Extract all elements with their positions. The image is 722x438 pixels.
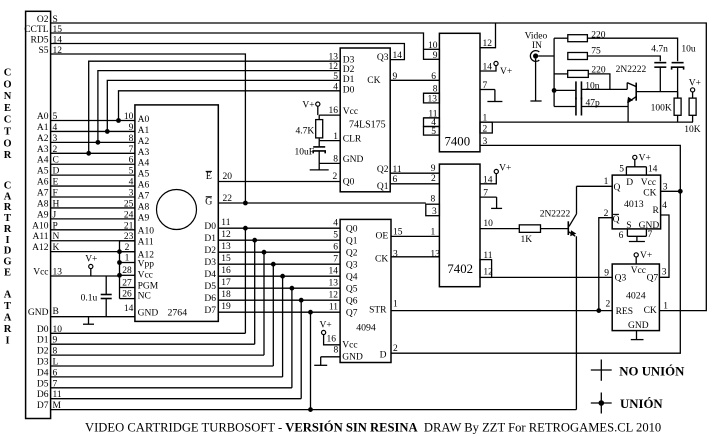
7400 pin 13 tie box <box>424 93 440 103</box>
junction clock at 4013 CK <box>678 189 683 194</box>
IC 4094 <box>340 219 391 362</box>
svg-text:Q1: Q1 <box>346 236 358 246</box>
svg-text:2: 2 <box>393 344 398 354</box>
wire A10 <box>51 229 135 231</box>
svg-text:A5: A5 <box>37 167 49 177</box>
svg-text:GND: GND <box>343 155 364 165</box>
junction on A2 <box>96 140 101 145</box>
svg-text:CK: CK <box>375 254 388 264</box>
svg-text:6: 6 <box>393 175 398 185</box>
svg-text:26: 26 <box>122 290 132 300</box>
svg-text:CLR: CLR <box>343 134 362 144</box>
svg-text:D0: D0 <box>37 325 49 335</box>
svg-text:A10: A10 <box>32 221 49 231</box>
svg-text:Q7: Q7 <box>346 308 358 318</box>
svg-text:0.1u: 0.1u <box>81 294 98 304</box>
svg-text:6: 6 <box>333 243 338 253</box>
svg-text:R: R <box>652 206 659 216</box>
wire A4 <box>51 163 135 165</box>
svg-text:D4: D4 <box>204 270 216 280</box>
wire GND from connector to 2764 pin 14 <box>51 316 135 318</box>
2764 D6 wire to 4094 <box>218 299 340 301</box>
wire A12 <box>51 251 135 253</box>
svg-text:22: 22 <box>223 194 233 204</box>
svg-text:NC: NC <box>138 292 151 302</box>
2764 pin 20 (E) wire to 74LS175 Q0 pin 2 <box>218 181 340 183</box>
svg-text:A4: A4 <box>37 156 49 166</box>
svg-text:4: 4 <box>333 219 338 229</box>
svg-text:RD5: RD5 <box>31 35 49 45</box>
wire 10n to transistor <box>582 88 627 90</box>
wire A9 <box>51 218 135 220</box>
svg-text:C: C <box>4 68 12 79</box>
svg-text:19: 19 <box>221 302 231 312</box>
junction D3 <box>271 262 276 267</box>
junction D5 <box>290 286 295 291</box>
74LS175 pin 11 Q2 wire to 7402 pin 9 <box>390 172 439 174</box>
wire 220 to 10u <box>587 38 677 61</box>
svg-text:2: 2 <box>604 209 609 219</box>
74LS175 pin 6 Q1 wire to 7402 pin 2 <box>390 183 439 185</box>
svg-text:Video: Video <box>525 31 548 41</box>
svg-text:1: 1 <box>604 177 609 187</box>
svg-text:4013: 4013 <box>624 199 644 210</box>
svg-text:A3: A3 <box>138 148 150 158</box>
junction D4 <box>280 274 285 279</box>
capacitor 47p <box>554 106 575 108</box>
junction Vcc tie <box>117 260 122 265</box>
junction video input node <box>552 88 557 93</box>
svg-text:D: D <box>626 178 633 188</box>
connector D0 wire <box>51 332 246 334</box>
svg-text:Vcc: Vcc <box>138 271 153 281</box>
svg-text:UNIÓN: UNIÓN <box>620 397 663 411</box>
wire 74LS175 D3 input to A3 <box>89 61 341 153</box>
2764 D7 wire to 4094 <box>218 311 340 313</box>
svg-text:GND: GND <box>28 308 49 318</box>
svg-text:A9: A9 <box>37 210 49 220</box>
junction Vpp tie <box>117 249 122 254</box>
svg-text:CK: CK <box>644 306 657 316</box>
wire A2 <box>51 141 135 143</box>
svg-text:Q2: Q2 <box>377 165 389 175</box>
svg-text:O: O <box>3 138 11 149</box>
svg-text:T: T <box>4 127 11 138</box>
svg-text:A: A <box>4 313 12 324</box>
svg-text:D0: D0 <box>343 85 355 95</box>
svg-text:D: D <box>4 246 12 257</box>
svg-text:Q4: Q4 <box>346 272 358 282</box>
wire A5 <box>51 174 135 176</box>
wire 4013 CK pin 3 <box>661 190 681 192</box>
svg-text:Q1: Q1 <box>377 182 389 192</box>
svg-text:11: 11 <box>393 165 402 175</box>
junction D7 <box>308 407 313 412</box>
resistor 1K <box>519 225 540 233</box>
IC 4024 <box>612 264 659 331</box>
svg-text:I: I <box>5 235 9 246</box>
svg-text:A12: A12 <box>32 243 49 253</box>
svg-text:3: 3 <box>483 137 488 147</box>
svg-text:14: 14 <box>329 267 339 277</box>
svg-text:A11: A11 <box>138 238 154 248</box>
junction Vcc wire tie <box>117 273 122 278</box>
4094 pin 15 OE wire to 7402 pin 1 <box>391 235 439 237</box>
ground at GND wire <box>88 317 90 325</box>
svg-text:10: 10 <box>483 219 493 229</box>
4013 pin 1 Q wire to Q2 collector <box>576 185 612 187</box>
svg-text:A8: A8 <box>37 199 49 209</box>
svg-text:4094: 4094 <box>356 323 376 334</box>
4094 pin 3 CK wire to 7402 pin 13 <box>391 256 439 258</box>
V+ supply at Vcc wire <box>89 264 93 268</box>
svg-text:D3: D3 <box>37 358 49 368</box>
IC 7400 <box>439 33 480 152</box>
svg-text:7400: 7400 <box>445 134 471 148</box>
svg-text:12: 12 <box>221 230 231 240</box>
svg-text:STR: STR <box>369 305 387 315</box>
svg-text:RES: RES <box>616 307 633 317</box>
4013 pin 2 Qbar wire to 4024 RES <box>599 218 612 311</box>
svg-text:CK: CK <box>643 189 656 199</box>
svg-text:Vcc: Vcc <box>33 268 48 278</box>
svg-text:T: T <box>4 213 11 224</box>
7402 pin 7 ground <box>480 196 497 198</box>
wire A3 <box>51 152 135 154</box>
svg-text:CCTL: CCTL <box>24 25 48 35</box>
svg-text:V+: V+ <box>499 164 511 174</box>
svg-text:4.7n: 4.7n <box>651 45 668 55</box>
wire A7 <box>51 196 135 198</box>
junction on A0 <box>116 118 121 123</box>
svg-text:D6: D6 <box>204 294 216 304</box>
IC 74LS175 <box>340 48 390 192</box>
7400 pin 14 V+ <box>480 66 496 71</box>
svg-text:2: 2 <box>125 243 130 253</box>
svg-text:18: 18 <box>221 290 231 300</box>
video input riser <box>553 38 555 106</box>
svg-text:5: 5 <box>431 127 436 137</box>
wire A1 <box>51 130 135 132</box>
svg-text:16: 16 <box>221 266 231 276</box>
EPROM 2764 <box>135 105 218 322</box>
svg-text:D3: D3 <box>204 258 216 268</box>
svg-text:VIDEO CARTRIDGE TURBOSOFT - VE: VIDEO CARTRIDGE TURBOSOFT - VERSIÓN SIN … <box>85 421 661 435</box>
svg-text:7: 7 <box>333 255 338 265</box>
junction D1 <box>252 238 257 243</box>
svg-text:A8: A8 <box>138 202 150 212</box>
IC 4013 <box>612 175 660 229</box>
svg-text:1: 1 <box>125 253 130 263</box>
svg-text:A1: A1 <box>138 126 150 136</box>
wire video in <box>538 55 554 57</box>
EPROM window circle <box>157 190 197 230</box>
connector D1 wire <box>51 343 255 345</box>
svg-text:9: 9 <box>129 123 134 133</box>
2764 pin 22 (G) wire to 7402 pins 8/3 <box>218 202 425 204</box>
svg-text:6: 6 <box>431 72 436 82</box>
svg-text:PGM: PGM <box>138 282 159 292</box>
svg-text:13: 13 <box>430 249 440 259</box>
svg-text:20: 20 <box>223 172 233 182</box>
svg-text:A9: A9 <box>138 213 150 223</box>
svg-text:G: G <box>205 197 212 208</box>
svg-text:T: T <box>4 301 11 312</box>
riser D2 <box>263 252 265 355</box>
svg-text:D7: D7 <box>204 306 216 316</box>
svg-text:13: 13 <box>221 242 231 252</box>
svg-text:3: 3 <box>129 189 134 199</box>
legend NO UNION symbol <box>591 369 612 371</box>
svg-text:V+: V+ <box>302 100 314 110</box>
svg-text:10u: 10u <box>681 45 696 55</box>
wire 47p to emitter <box>582 106 628 108</box>
svg-text:10: 10 <box>428 41 438 51</box>
svg-text:A5: A5 <box>138 170 150 180</box>
wire 75 to 4.7n <box>587 56 660 61</box>
svg-text:G: G <box>3 256 11 267</box>
svg-text:12: 12 <box>483 267 493 277</box>
svg-text:100K: 100K <box>651 104 672 114</box>
7400 pin 12 wire to O2 <box>480 23 496 48</box>
4094 pin 16 Vcc V+ <box>322 330 326 334</box>
svg-text:Q3: Q3 <box>346 260 358 270</box>
svg-text:Q: Q <box>613 215 620 225</box>
svg-text:2N2222: 2N2222 <box>616 65 647 75</box>
svg-text:74LS175: 74LS175 <box>349 120 386 131</box>
svg-text:11: 11 <box>221 218 230 228</box>
svg-text:Q3: Q3 <box>615 274 627 284</box>
wire 7402 pin 12 to 4024 Q3 pin 9 <box>492 276 613 278</box>
svg-text:V+: V+ <box>640 251 652 261</box>
svg-text:Vcc: Vcc <box>342 341 357 351</box>
4094 pin 2 D wire to clock riser <box>391 191 680 353</box>
IC 7402 <box>439 164 480 287</box>
svg-text:13: 13 <box>329 279 339 289</box>
svg-text:2: 2 <box>606 299 611 309</box>
connector D5 wire <box>51 387 292 389</box>
svg-text:15: 15 <box>221 254 231 264</box>
wire A11 <box>51 240 135 242</box>
svg-text:R: R <box>4 224 12 235</box>
svg-text:V+: V+ <box>689 79 701 89</box>
svg-text:D2: D2 <box>343 65 355 75</box>
svg-text:A11: A11 <box>32 232 48 242</box>
svg-text:C: C <box>4 181 12 192</box>
svg-text:D1: D1 <box>37 336 49 346</box>
svg-text:Q: Q <box>614 183 621 193</box>
svg-text:A2: A2 <box>138 137 150 147</box>
wire 74LS175 D2 input to A2 <box>98 71 340 143</box>
4024 V+ pin Vcc <box>634 253 638 257</box>
svg-text:9: 9 <box>433 51 438 61</box>
svg-text:E: E <box>4 103 11 114</box>
svg-text:2764: 2764 <box>168 308 188 319</box>
svg-text:12: 12 <box>329 291 339 301</box>
svg-text:NO UNIÓN: NO UNIÓN <box>619 365 685 379</box>
svg-text:R: R <box>4 150 12 161</box>
svg-text:16: 16 <box>327 335 337 345</box>
svg-text:Vcc: Vcc <box>641 178 656 188</box>
svg-text:10K: 10K <box>684 125 701 135</box>
svg-text:A1: A1 <box>37 123 49 133</box>
wire Vcc from connector to 2764 <box>51 275 120 277</box>
connector D3 wire <box>51 365 274 367</box>
svg-text:6: 6 <box>619 231 624 241</box>
svg-text:A4: A4 <box>138 159 150 169</box>
svg-text:Q0: Q0 <box>343 177 355 187</box>
wire A8 <box>51 207 135 209</box>
svg-text:7402: 7402 <box>447 262 473 276</box>
riser D0 <box>244 228 246 333</box>
svg-text:A2: A2 <box>37 134 49 144</box>
wire A6 <box>51 185 135 187</box>
svg-text:2N2222: 2N2222 <box>540 210 571 220</box>
riser D5 <box>291 288 293 388</box>
svg-text:5: 5 <box>129 167 134 177</box>
wire CCTL net: connector 15 to 7400 pins 10/9 <box>51 33 424 49</box>
svg-text:E: E <box>206 171 212 182</box>
ground 74LS175 <box>318 163 320 170</box>
svg-text:Vpp: Vpp <box>138 260 155 270</box>
svg-text:8: 8 <box>431 195 436 205</box>
svg-text:8: 8 <box>129 134 134 144</box>
4094 pin 1 STR wire to 4024 RES pin 2 <box>391 310 612 312</box>
svg-text:24: 24 <box>124 210 134 220</box>
svg-text:V+: V+ <box>500 67 512 77</box>
svg-text:3: 3 <box>432 207 437 217</box>
svg-text:O2: O2 <box>37 15 49 25</box>
svg-text:Q7: Q7 <box>647 274 659 284</box>
svg-text:D2: D2 <box>37 347 49 357</box>
svg-text:9: 9 <box>604 268 609 278</box>
wire 220 to base node <box>588 74 610 90</box>
riser D7 <box>310 312 312 409</box>
RCA ground <box>535 59 537 101</box>
7400 pin 8 stub <box>424 92 440 94</box>
2764 D0 wire to 4094 <box>218 227 340 229</box>
svg-text:A7: A7 <box>138 192 150 202</box>
svg-text:A: A <box>4 191 12 202</box>
svg-text:Vcc: Vcc <box>343 107 358 117</box>
wire V+ to Vcc pin16 <box>319 114 340 116</box>
svg-text:V+: V+ <box>85 255 97 265</box>
svg-text:14: 14 <box>483 63 493 73</box>
svg-text:15: 15 <box>393 227 403 237</box>
svg-text:27: 27 <box>122 278 132 288</box>
svg-text:2: 2 <box>431 174 436 184</box>
svg-text:A3: A3 <box>37 145 49 155</box>
svg-text:E: E <box>4 267 11 278</box>
svg-text:23: 23 <box>124 232 134 242</box>
svg-text:A10: A10 <box>138 227 155 237</box>
2764 D2 wire to 4094 <box>218 251 340 253</box>
svg-text:GND: GND <box>138 309 159 319</box>
svg-text:N: N <box>4 91 12 102</box>
svg-text:7: 7 <box>483 189 488 199</box>
svg-text:21: 21 <box>124 221 134 231</box>
svg-text:1: 1 <box>663 301 668 311</box>
connector D4 wire <box>51 376 283 378</box>
svg-text:A: A <box>4 290 12 301</box>
svg-text:28: 28 <box>122 266 132 276</box>
svg-text:6: 6 <box>129 156 134 166</box>
svg-text:75: 75 <box>591 47 601 57</box>
4013 pin 4 R wire to 4024 Q7 <box>659 215 669 277</box>
svg-text:Q5: Q5 <box>346 284 358 294</box>
7400 pin 1 wire <box>480 121 693 123</box>
svg-text:A0: A0 <box>37 112 49 122</box>
svg-text:A6: A6 <box>37 178 49 188</box>
svg-text:8: 8 <box>333 346 338 356</box>
svg-text:D0: D0 <box>204 222 216 232</box>
svg-text:14: 14 <box>124 304 134 314</box>
svg-text:9: 9 <box>431 164 436 174</box>
wire A0 <box>51 120 135 122</box>
2764 D5 wire to 4094 <box>218 287 340 289</box>
svg-text:Q3: Q3 <box>377 53 389 63</box>
svg-text:8: 8 <box>333 154 338 164</box>
wire Q2 emitter to D7 <box>575 236 577 409</box>
7400 pin 3 wire to clock riser <box>480 145 680 191</box>
resistor 220 top <box>554 37 568 39</box>
svg-text:13: 13 <box>428 95 438 105</box>
svg-text:D1: D1 <box>204 234 216 244</box>
wire base node <box>636 91 677 93</box>
svg-text:2: 2 <box>333 172 338 182</box>
capacitor 10n <box>554 89 575 91</box>
svg-text:4024: 4024 <box>626 290 646 301</box>
svg-text:1: 1 <box>333 132 338 142</box>
riser D1 <box>254 240 256 344</box>
4013 V+ pins 5/14 <box>633 155 637 159</box>
svg-text:R: R <box>4 324 12 335</box>
cartridge connector <box>26 11 51 418</box>
connector D6 wire <box>51 398 302 400</box>
7400 pins 10/9 tie box <box>424 49 440 59</box>
7400 pins 4/5 tie boxes <box>424 118 440 127</box>
svg-text:OE: OE <box>376 232 389 242</box>
connector D7 wire to transistor <box>51 409 577 411</box>
svg-text:25: 25 <box>124 199 134 209</box>
junction D6 <box>299 298 304 303</box>
7402 pin 14 V+ <box>480 174 496 184</box>
wire 74LS175 D1 input to A1 <box>107 80 340 131</box>
svg-text:I: I <box>5 336 9 347</box>
7402 pin 12 tie box <box>480 260 492 278</box>
resistor 75 <box>568 53 588 60</box>
junction on A1 <box>105 129 110 134</box>
svg-text:12: 12 <box>483 39 493 49</box>
7402 pin 10 wire to 1K <box>480 228 519 230</box>
2764 D1 wire to 4094 <box>218 239 340 241</box>
wire O2 net: connector S to right edge down to 4024 CK <box>51 23 707 311</box>
svg-text:D6: D6 <box>37 390 49 400</box>
svg-text:2: 2 <box>483 125 488 135</box>
junction S5/G <box>243 201 248 206</box>
wire S5 net: connector 12 down to G wire <box>51 54 246 203</box>
7400 pin 7 ground <box>480 89 495 91</box>
svg-text:O: O <box>3 79 11 90</box>
svg-text:D: D <box>380 351 387 361</box>
svg-text:4: 4 <box>662 201 667 211</box>
2764 D4 wire to 4094 <box>218 275 340 277</box>
svg-text:5: 5 <box>333 231 338 241</box>
junction on A3 <box>86 151 91 156</box>
svg-text:Vcc: Vcc <box>631 266 646 276</box>
svg-text:V+: V+ <box>639 154 651 164</box>
svg-text:14: 14 <box>393 51 403 61</box>
